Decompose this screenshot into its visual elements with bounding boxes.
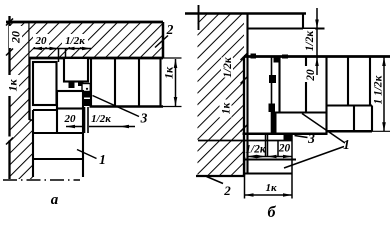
label 2 B with leader: [207, 177, 232, 199]
brick B1 A: [33, 62, 57, 105]
label 3 A with leader: [93, 96, 148, 126]
dimension 20 / half-brick middle A: [62, 112, 135, 128]
svg-text:1: 1: [343, 137, 350, 152]
svg-text:1/2к: 1/2к: [222, 57, 234, 77]
joint square A3 black: [84, 92, 90, 98]
wall band A top hatched: [6, 22, 163, 58]
dimension 1k right A: [162, 59, 178, 106]
svg-text:1/2к: 1/2к: [304, 31, 316, 51]
svg-text:2: 2: [166, 22, 174, 37]
dimension half-brick strip B: [221, 53, 248, 84]
label 1 B with leaders: [284, 114, 350, 169]
joint square A4 black: [84, 99, 90, 106]
joint square B6 black: [284, 135, 292, 141]
right wall B bottom edge: [243, 131, 391, 134]
brick row top A bottom edge: [90, 58, 182, 107]
joint square A2 black: [78, 81, 84, 86]
small brick C with dot A: [82, 84, 90, 92]
svg-text:1 1/2к: 1 1/2к: [373, 75, 385, 104]
toothing column line B: [271, 57, 273, 134]
main wall top edge B: [244, 55, 390, 58]
gap close line A: [30, 119, 34, 121]
right wall B perpends: [280, 57, 373, 134]
svg-text:1к: 1к: [265, 182, 277, 194]
svg-text:а: а: [51, 192, 59, 208]
svg-text:1к: 1к: [162, 66, 176, 79]
svg-text:1к: 1к: [221, 103, 233, 115]
dimension 20 vertical left A: [6, 19, 23, 56]
joint square B1 black: [251, 54, 257, 59]
dimension 1k bottom B: [245, 182, 293, 197]
joint square A1 black: [69, 82, 75, 88]
joint dash B black: [282, 55, 288, 59]
joint bar B5 black: [271, 112, 277, 134]
lower wall A outline: [33, 109, 83, 178]
svg-text:1к: 1к: [6, 79, 20, 92]
upper courses B: [248, 14, 325, 174]
dimension 1 1/2k right B: [373, 57, 386, 131]
svg-text:20: 20: [35, 35, 48, 47]
label 2 A with leader: [155, 22, 174, 48]
lower block courses B: [198, 134, 296, 199]
brick B2 A: [64, 58, 88, 82]
svg-text:2: 2: [223, 183, 231, 198]
dimension 1k strip B: [220, 100, 248, 132]
svg-text:20: 20: [64, 113, 77, 125]
dimension 1k vertical left A: [6, 75, 20, 145]
svg-text:1: 1: [99, 152, 106, 167]
brick row top A perpends: [91, 58, 161, 107]
dimension extension top left B: [198, 5, 200, 30]
axis dash-dot line A: [3, 179, 80, 181]
joint gap lines below A: [85, 107, 89, 133]
dimension half-brick / 20 lower B: [245, 143, 292, 159]
right wall B mid joint: [327, 104, 373, 106]
svg-text:1/2к: 1/2к: [65, 35, 85, 47]
svg-text:1/2к: 1/2к: [91, 113, 111, 125]
wall strip B hatched: [196, 14, 245, 177]
svg-text:1/2к: 1/2к: [245, 144, 265, 156]
brick B3 A: [57, 91, 83, 109]
joint square B4 black: [269, 104, 276, 113]
joint square B3 black: [269, 75, 276, 83]
label 1 A with leader: [77, 150, 106, 168]
right wall B step line: [272, 111, 327, 113]
joint square B2 black: [274, 58, 279, 63]
svg-text:20: 20: [9, 31, 23, 44]
dimension 20 / half-brick top A: [33, 34, 91, 62]
wall strip A hatched: [10, 16, 34, 179]
svg-text:20: 20: [278, 143, 291, 155]
dimension half-brick vertical B (over courses): [303, 8, 319, 82]
svg-text:б: б: [268, 204, 277, 221]
label 3 B with leader: [295, 131, 316, 146]
top edge line B: [185, 12, 306, 15]
svg-text:20: 20: [305, 69, 317, 82]
svg-text:3: 3: [140, 111, 148, 126]
svg-text:3: 3: [307, 131, 315, 146]
